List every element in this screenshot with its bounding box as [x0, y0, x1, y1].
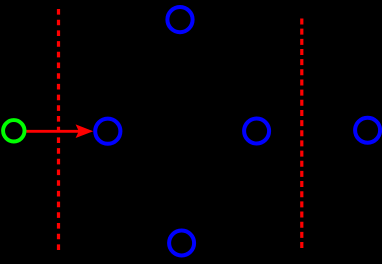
blue node top: [167, 7, 192, 32]
left dashed boundary line: [57, 9, 60, 250]
green source node: [3, 120, 24, 141]
arrow from green node to left blue node: [26, 124, 93, 138]
right dashed boundary line: [300, 19, 303, 249]
blue node center-right: [244, 119, 269, 144]
blue node left-middle: [95, 119, 120, 144]
blue node right: [355, 118, 380, 143]
blue node bottom: [169, 231, 194, 256]
